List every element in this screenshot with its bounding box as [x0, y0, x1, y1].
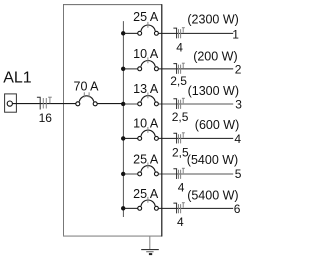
node N4 (bus junction) — [121, 136, 125, 140]
svg-text:(5400 W): (5400 W) — [187, 189, 238, 203]
svg-text:2: 2 — [235, 63, 242, 77]
ground (PE) wire — [149, 236, 151, 249]
svg-text:16: 16 — [39, 111, 53, 125]
node N5 (bus junction) — [121, 172, 125, 176]
cable marker circuit 3 — [173, 98, 184, 109]
svg-text:(1300 W): (1300 W) — [188, 84, 239, 98]
svg-text:4: 4 — [177, 215, 184, 229]
svg-text:25 A: 25 A — [133, 153, 159, 167]
node N1 (bus junction) — [121, 31, 125, 35]
svg-text:2,5: 2,5 — [170, 74, 187, 88]
cable marker circuit 2 — [173, 63, 184, 74]
wire bus to breaker F4 — [123, 137, 138, 139]
distribution board enclosure — [63, 4, 162, 236]
wire bus to breaker F3 — [123, 103, 138, 105]
svg-text:70 A: 70 A — [74, 80, 100, 94]
svg-text:(5400 W): (5400 W) — [187, 153, 238, 167]
wire bus to breaker F6 — [123, 207, 138, 209]
ground symbol — [141, 250, 159, 256]
wire bus to breaker F1 — [123, 32, 138, 34]
svg-text:2,5: 2,5 — [172, 110, 189, 124]
svg-text:(600 W): (600 W) — [195, 118, 239, 132]
wire breaker F3 to terminal 3 — [158, 103, 233, 105]
svg-text:25 A: 25 A — [133, 187, 159, 201]
svg-text:10 A: 10 A — [133, 47, 159, 61]
svg-text:1: 1 — [232, 28, 239, 42]
wire breaker F4 to terminal 4 — [158, 137, 233, 139]
wire breaker F5 to terminal 5 — [158, 173, 233, 175]
cable marker circuit 4 — [173, 133, 184, 144]
svg-text:6: 6 — [234, 202, 241, 216]
svg-text:(2300 W): (2300 W) — [187, 12, 238, 26]
cable marker circuit 5 — [173, 168, 184, 179]
cable marker circuit 6 — [173, 203, 184, 214]
svg-text:5: 5 — [235, 167, 242, 181]
svg-text:4: 4 — [176, 40, 183, 54]
breaker F6 25 A — [138, 197, 159, 210]
breaker F5 25 A — [138, 163, 159, 176]
breaker F3 13 A — [138, 93, 159, 106]
svg-text:(200 W): (200 W) — [193, 50, 237, 64]
cable marker main (16 mm2) — [37, 97, 52, 110]
wire breaker F1 to terminal 1 — [158, 32, 233, 34]
wire breaker F2 to terminal 2 — [158, 68, 233, 70]
wire bus to breaker F2 — [123, 68, 138, 70]
wire main breaker to bus — [97, 103, 123, 105]
terminal X1 (supply) — [5, 94, 17, 112]
svg-text:AL1: AL1 — [3, 70, 32, 87]
node N6 (bus junction) — [121, 206, 125, 210]
wire breaker F6 to terminal 6 — [158, 207, 233, 209]
svg-text:10 A: 10 A — [133, 117, 159, 131]
wire supply to main breaker — [12, 103, 76, 105]
svg-text:4: 4 — [234, 132, 241, 146]
node N2 (bus junction) — [121, 67, 125, 71]
wire bus to breaker F5 — [123, 173, 138, 175]
breaker F1 25 A — [138, 22, 159, 35]
node N3 (bus junction) — [121, 102, 125, 106]
breaker F4 10 A — [138, 127, 159, 140]
svg-text:3: 3 — [235, 98, 242, 112]
bus bar — [122, 21, 124, 217]
breaker F2 10 A — [138, 57, 159, 70]
svg-text:13 A: 13 A — [133, 82, 159, 96]
main breaker Q0 70 A — [76, 92, 97, 106]
svg-text:4: 4 — [178, 180, 185, 194]
svg-text:25 A: 25 A — [133, 10, 159, 24]
cable marker circuit 1 — [173, 28, 184, 39]
